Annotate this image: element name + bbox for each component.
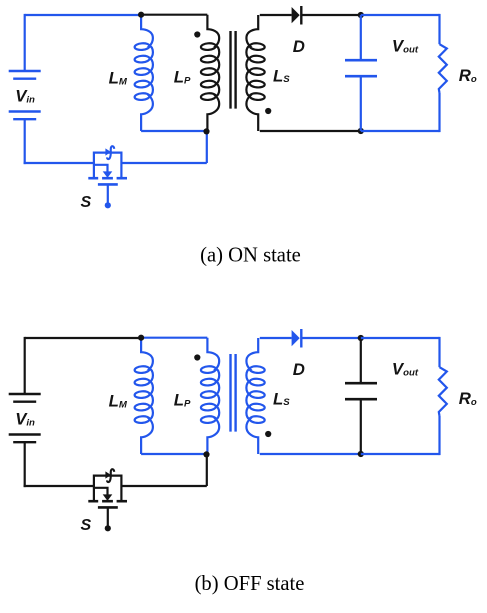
node bottom output bbox=[358, 128, 364, 134]
svg-text:S: S bbox=[81, 517, 92, 534]
wire LS bottom bbox=[260, 453, 361, 455]
wire left rail upper bbox=[24, 14, 26, 71]
inductor LP bbox=[207, 15, 219, 132]
phase dot LP bbox=[194, 354, 200, 360]
svg-text:S: S bbox=[81, 194, 92, 211]
gate terminal dot bbox=[105, 202, 111, 208]
transformer core bbox=[231, 31, 236, 109]
wire LS bottom bbox=[260, 130, 361, 132]
node top output bbox=[358, 12, 364, 18]
wire battery to MOSFET bbox=[24, 485, 94, 487]
wire top-left rail bbox=[25, 337, 141, 339]
wire node to right rail bbox=[361, 14, 447, 132]
circuit (a) ON state bbox=[9, 6, 477, 211]
phase dot LP bbox=[194, 31, 200, 37]
wire left rail upper bbox=[24, 337, 26, 394]
capacitor Vout branch bbox=[345, 15, 377, 131]
svg-text:D: D bbox=[293, 360, 305, 379]
node junction top (LM/LP) bbox=[138, 335, 144, 341]
wire MOSFET to node bbox=[121, 485, 206, 487]
wire diode to node bbox=[301, 337, 361, 339]
inductor LM bbox=[141, 15, 153, 131]
inductor LS bbox=[246, 338, 258, 454]
inductor LS bbox=[246, 15, 258, 131]
wire node to LP bbox=[141, 337, 207, 339]
wire battery to MOSFET bbox=[24, 162, 94, 164]
wire LS to diode bbox=[260, 337, 292, 339]
transistor S (MOSFET) bbox=[88, 469, 127, 526]
inductor LM bbox=[141, 338, 153, 454]
wire top-left rail bbox=[25, 14, 141, 16]
circuit (b) OFF state bbox=[9, 329, 477, 534]
wire left rail lower bbox=[24, 442, 26, 487]
node junction bottom (LM/LP) bbox=[203, 128, 209, 134]
svg-text:(b) OFF state: (b) OFF state bbox=[195, 573, 305, 595]
battery Vin bbox=[9, 394, 41, 442]
gate terminal dot bbox=[105, 525, 111, 531]
wire left rail lower bbox=[24, 119, 26, 164]
battery Vin bbox=[9, 71, 41, 119]
wire MOSFET to node bbox=[121, 162, 206, 164]
phase dot LS bbox=[265, 108, 271, 114]
wire node to right rail bbox=[361, 337, 447, 455]
capacitor Vout branch bbox=[345, 338, 377, 454]
transformer core bbox=[231, 354, 236, 432]
wire LM bottom link bbox=[141, 130, 206, 132]
wire node to LP bbox=[141, 14, 207, 16]
node top output bbox=[358, 335, 364, 341]
diode D bbox=[292, 7, 300, 23]
svg-text:D: D bbox=[293, 37, 305, 56]
svg-text:(a) ON state: (a) ON state bbox=[200, 245, 301, 267]
phase dot LS bbox=[265, 431, 271, 437]
wire LS to diode bbox=[260, 14, 292, 16]
node bottom output bbox=[358, 451, 364, 457]
inductor LP bbox=[207, 338, 219, 455]
node junction top (LM/LP) bbox=[138, 12, 144, 18]
node junction bottom (LM/LP) bbox=[203, 451, 209, 457]
diode D bbox=[292, 330, 300, 346]
transistor S (MOSFET) bbox=[88, 146, 127, 203]
wire LM bottom link bbox=[141, 453, 206, 455]
wire diode to node bbox=[301, 14, 361, 16]
